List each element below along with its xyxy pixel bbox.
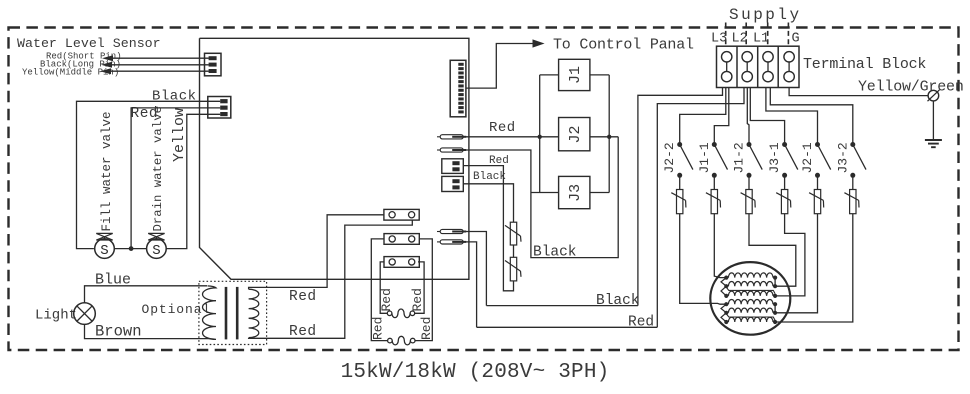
supply lead-in dashed line 1: [725, 23, 727, 47]
fill valve symbol (bowtie): [96, 233, 112, 240]
wire water-level-sensor line 3: [108, 70, 209, 72]
wire J3-2 protector to heater row6 right: [775, 214, 853, 322]
svg-text:Light: Light: [35, 308, 77, 324]
svg-text:To Control Panal: To Control Panal: [553, 37, 694, 54]
svg-text:Red: Red: [289, 324, 317, 340]
connector CN3 (control panel ribbon header): [450, 60, 466, 117]
wire CN3 to control panel arrow: [466, 44, 534, 89]
terminal block pole 4 screws: [784, 52, 794, 62]
wire F3 to black bus vertical: [463, 232, 486, 306]
svg-text:Red: Red: [379, 288, 394, 311]
wire J1 row left: [540, 74, 559, 76]
svg-text:J3-2: J3-2: [835, 142, 850, 173]
svg-text:J2-2: J2-2: [662, 142, 677, 173]
svg-text:J3: J3: [567, 184, 584, 202]
supply lead-in dashed line 2: [745, 23, 747, 47]
contact switch J2-1: [815, 142, 820, 147]
wire J1 row right: [590, 74, 609, 76]
node junction left rail / J2 row: [538, 135, 542, 139]
thermal protector under J3-2: [852, 175, 854, 189]
heater element row 1 (wavy) with terminals: [724, 276, 728, 280]
wire F2 down to J3 row: [463, 150, 531, 193]
contact switch J3-1: [782, 142, 787, 147]
heater straight return link rows 2-3: [727, 287, 776, 293]
svg-text:Yellow/Green: Yellow/Green: [858, 79, 964, 96]
wire feed to switch J1-2: [747, 88, 749, 145]
heater tank circle: [710, 262, 790, 335]
wire brown lamp-to-transformer: [85, 324, 211, 338]
heating element (outer, wavy) with end terminals: [388, 338, 393, 343]
fuse link F1 (pill) with Red wire to relay rail: [437, 136, 440, 138]
wire F1 to J2 rail: [463, 136, 540, 138]
wire RT1 to RT2: [513, 245, 515, 257]
ground screw terminal: [928, 90, 939, 101]
terminal block pole 1 screws: [722, 52, 732, 62]
transformer T1 core: [225, 287, 228, 340]
wire J1-1 protector to heater row1 left: [714, 214, 726, 278]
wire blue lamp-to-transformer: [85, 286, 208, 303]
transformer T1 primary winding: [203, 286, 217, 340]
supply lead-in dashed line 3: [767, 23, 769, 47]
svg-text:J1-2: J1-2: [732, 142, 747, 173]
svg-text:J1-1: J1-1: [697, 142, 712, 173]
supply lead-in dashed line 4: [787, 23, 789, 47]
svg-text:S: S: [100, 243, 108, 259]
wire water-level-sensor line 1: [110, 57, 209, 59]
svg-text:Red: Red: [289, 289, 317, 305]
wire red bus bottom: [477, 326, 658, 328]
svg-text:Black: Black: [152, 89, 197, 105]
svg-text:J3-1: J3-1: [767, 142, 782, 173]
wire water-level-sensor line 2: [109, 64, 209, 66]
heater element row 2 (wavy) with terminals: [724, 284, 728, 288]
relay coil J2: [559, 118, 590, 151]
wire black bus bottom: [486, 305, 638, 307]
thermal fuse RT1: [510, 222, 516, 245]
connector CN2 (valve harness 3-pin): [208, 97, 231, 119]
terminal strip TB2 (heater tank terminal upper): [384, 234, 419, 245]
svg-text:Fill water valve: Fill water valve: [100, 111, 114, 231]
terminal block pole 2 screws: [742, 52, 752, 62]
terminal strip TB3 (heater tank terminal lower): [384, 257, 419, 268]
wire J1-2 protector to heater row2 right: [749, 214, 796, 287]
thermal protector under J1-2: [748, 175, 750, 189]
wire F4 to red bus vertical: [463, 242, 476, 327]
wire J3 row left: [531, 192, 559, 194]
svg-text:Red: Red: [628, 315, 654, 331]
wire J2 row right: [590, 136, 618, 138]
transformer T1 secondary winding: [249, 289, 259, 338]
svg-text:L1: L1: [753, 32, 769, 47]
wire feed to switch J3-2: [770, 88, 853, 145]
fill water valve solenoid V1: [95, 239, 115, 259]
heater element row 6 (wavy) with terminals: [724, 320, 728, 324]
wire to ground symbol: [932, 101, 934, 140]
relay coil J3: [559, 176, 590, 208]
svg-text:J1: J1: [567, 66, 584, 84]
fuse link F4 (pill) to red bus: [437, 241, 440, 243]
wire feed to switch J1-1: [714, 88, 729, 145]
drain valve symbol (bowtie): [148, 233, 164, 240]
heater element row 3 (wavy) with terminals: [724, 294, 728, 298]
svg-text:S: S: [152, 243, 160, 259]
heater straight return link rows 5-6: [727, 314, 776, 320]
wire CN4 to thermal fuse chain: [463, 166, 513, 291]
fuse link F2 (pill): [437, 149, 440, 151]
svg-text:J2-1: J2-1: [800, 142, 815, 173]
wire valve bottom connecting segments: [114, 248, 147, 250]
svg-text:Red: Red: [419, 317, 434, 340]
svg-text:L2: L2: [732, 32, 748, 47]
left rail of relay coils: [539, 75, 541, 193]
wire TB2 to outer element loop: [371, 239, 387, 341]
thermal protector under J1-1: [713, 175, 715, 189]
svg-text:G: G: [792, 32, 800, 47]
wire TB3 to inner element loop: [380, 262, 387, 313]
contact switch J1-2: [747, 142, 752, 147]
wire yellow drain-valve: [166, 114, 220, 248]
svg-text:15kW/18kW (208V~ 3PH): 15kW/18kW (208V~ 3PH): [341, 361, 610, 384]
relay coil J1: [559, 59, 590, 90]
heater right link rows 1-2: [774, 278, 776, 287]
fuse link F3 (pill) to black bus: [437, 231, 440, 233]
thermal protector under J2-2: [679, 175, 681, 189]
node valve common junction: [129, 246, 134, 251]
svg-text:L3: L3: [711, 32, 727, 47]
heater right link rows 4-5: [774, 304, 776, 313]
terminal block TB (4 pole): [717, 46, 800, 87]
svg-text:Red: Red: [371, 317, 386, 340]
wire L3 to black bus (left drop): [638, 88, 723, 306]
wire black fill-valve loop: [77, 101, 221, 248]
arrow To Control Panal: [533, 39, 545, 47]
heater left zigzag link rows 1-3: [721, 278, 726, 296]
connector CN4 (thermostat 2-pin upper): [442, 159, 464, 174]
svg-text:Optional: Optional: [142, 302, 212, 317]
contact switch J1-1: [712, 142, 717, 147]
wire black U-link (J2 row down to J3 feed): [531, 137, 618, 258]
terminal block pole 3 screws: [763, 52, 773, 62]
heater element row 5 (wavy) with terminals: [724, 311, 728, 315]
wire red valve common: [131, 108, 220, 249]
lamp L1 (indicator light): [74, 303, 96, 325]
contact switch J2-2: [677, 142, 682, 147]
svg-text:Black: Black: [473, 171, 506, 183]
node junction right rail / J2 row: [607, 135, 611, 139]
wire transformer secondary bottom to relay strip: [249, 220, 413, 338]
svg-text:Water Level Sensor: Water Level Sensor: [17, 36, 161, 51]
wire J2-1 protector to heater row5 right: [775, 214, 817, 313]
heating element (inner, wavy) with end terminals: [387, 311, 392, 316]
thermal protector under J2-1: [817, 175, 819, 189]
wire J2-2 protector to heater row4 left: [680, 214, 727, 305]
wire yellow/green from G pole to ground screw: [789, 88, 928, 96]
ground symbol: [925, 139, 942, 141]
wire J2-row red bus (left): [540, 136, 559, 138]
wire L2 to red bus (left drop): [657, 88, 744, 328]
svg-text:Yellow: Yellow: [171, 108, 188, 162]
svg-text:Terminal Block: Terminal Block: [803, 56, 926, 73]
svg-text:Yellow(Middle Pin): Yellow(Middle Pin): [22, 68, 119, 78]
contact switch J3-2: [850, 142, 855, 147]
wire feed to switch J2-1: [766, 88, 818, 145]
svg-text:J2: J2: [567, 125, 584, 143]
drain water valve solenoid V2: [147, 239, 167, 259]
thermal fuse RT2: [510, 257, 516, 281]
wire J3-1 protector to heater row3 right: [775, 214, 805, 296]
control board outline: [200, 38, 469, 279]
wire feed to switch J3-1: [750, 88, 784, 145]
connector CN1 (water level sensor 3-pin): [205, 53, 222, 76]
svg-text:Red: Red: [410, 288, 425, 311]
right rail of relay coils: [608, 75, 610, 193]
svg-text:Brown: Brown: [95, 323, 142, 341]
svg-text:Supply: Supply: [729, 6, 802, 24]
svg-text:Red: Red: [489, 120, 516, 136]
thermal protector under J3-1: [784, 175, 786, 189]
svg-text:Black: Black: [596, 293, 640, 309]
wire J3 row right: [590, 192, 609, 194]
heater element row 4 (wavy) with terminals: [724, 302, 728, 306]
terminal strip TB1 (pump/relay output): [384, 209, 419, 220]
connector CN5 (thermostat 2-pin lower): [442, 176, 464, 191]
wire feed to switch J2-2: [680, 88, 726, 145]
wire transformer secondary top to relay strip: [249, 215, 384, 289]
svg-text:Black: Black: [533, 245, 577, 261]
transformer T1 dotted enclosure: [199, 281, 267, 344]
heater left zigzag link rows 4-6: [721, 304, 726, 322]
wire CN5 to thermal fuse RT1: [463, 184, 513, 222]
svg-text:Drain water valve: Drain water valve: [151, 106, 165, 231]
